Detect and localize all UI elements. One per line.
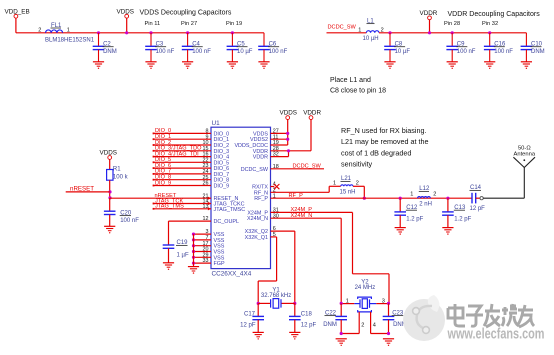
svg-text:www.elecfans.com: www.elecfans.com xyxy=(447,326,545,343)
wire net X32K_Q2 xyxy=(271,230,295,232)
svg-text:1: 1 xyxy=(410,191,413,197)
capacitor C2 xyxy=(93,31,117,62)
svg-text:DC_OUPL: DC_OUPL xyxy=(214,219,239,225)
ground xyxy=(336,338,347,340)
power terminal VDDR (chip) xyxy=(303,109,321,119)
U1 right pin names and numbers xyxy=(234,129,278,241)
svg-text:nRESET: nRESET xyxy=(70,186,94,193)
svg-text:FGP: FGP xyxy=(214,261,225,267)
watermark chinese text xyxy=(448,304,534,327)
svg-text:Pin 11: Pin 11 xyxy=(145,21,161,27)
svg-text:15 nH: 15 nH xyxy=(340,190,356,196)
ground xyxy=(163,262,174,264)
op-amp U1 chip body CC26XX_4X4 xyxy=(211,120,271,277)
wire net DIO_2 xyxy=(153,140,211,146)
net label nRESET (left) xyxy=(66,186,110,193)
svg-text:BLM18HE152SN1: BLM18HE152SN1 xyxy=(45,38,95,44)
capacitor C19 xyxy=(163,240,189,263)
wire RF_N xyxy=(271,191,330,193)
svg-text:R1: R1 xyxy=(113,166,121,172)
U1 left pin names and numbers xyxy=(203,129,246,268)
svg-text:4: 4 xyxy=(373,322,376,328)
wire net DCDC_SW (chip) xyxy=(271,164,325,170)
svg-text:JTAG_TMSC: JTAG_TMSC xyxy=(214,207,246,213)
svg-text:JTAG_TMS: JTAG_TMS xyxy=(155,204,184,210)
wire net DIO_1 xyxy=(153,134,211,140)
capacitor C12 xyxy=(394,197,423,228)
svg-text:100 nF: 100 nF xyxy=(494,49,513,55)
wire net DIO_3/JTAG_TDO xyxy=(153,146,211,152)
svg-text:100 nF: 100 nF xyxy=(120,218,139,224)
ground xyxy=(484,61,495,63)
svg-text:2: 2 xyxy=(361,322,364,328)
svg-text:DCDC_SW: DCDC_SW xyxy=(241,167,269,173)
ground xyxy=(521,61,532,63)
svg-text:2: 2 xyxy=(38,27,41,33)
wire net DIO_9 xyxy=(153,180,211,186)
svg-text:2: 2 xyxy=(433,191,436,197)
capacitor C18 xyxy=(289,303,316,332)
svg-text:C17: C17 xyxy=(244,311,256,317)
svg-text:12 pF: 12 pF xyxy=(240,322,256,328)
wire VDD_EB to rail xyxy=(15,18,17,33)
capacitor C10 xyxy=(521,33,545,62)
ground xyxy=(182,61,193,63)
svg-text:24 MHz: 24 MHz xyxy=(355,285,376,291)
svg-text:DCDC_SW: DCDC_SW xyxy=(293,164,322,170)
svg-text:1 µF: 1 µF xyxy=(177,252,189,258)
wire net DIO_7 xyxy=(153,169,211,175)
svg-text:L21 may be removed at the: L21 may be removed at the xyxy=(341,137,429,146)
ground xyxy=(227,61,238,63)
svg-text:DCDC_SW: DCDC_SW xyxy=(328,25,357,31)
svg-text:VDDS: VDDS xyxy=(100,150,118,157)
antenna 50 ohm xyxy=(483,145,536,198)
svg-text:DIO_9: DIO_9 xyxy=(155,180,171,186)
svg-text:X32K_Q1: X32K_Q1 xyxy=(245,235,268,241)
ground xyxy=(104,225,115,227)
capacitor C14 xyxy=(470,185,486,212)
svg-text:RF_P: RF_P xyxy=(254,196,268,202)
capacitor C6 xyxy=(258,33,287,62)
wire net DIO_6 xyxy=(153,163,211,169)
svg-text:100 nF: 100 nF xyxy=(269,49,288,55)
svg-text:U1: U1 xyxy=(212,120,221,127)
svg-text:100 k: 100 k xyxy=(113,175,129,181)
inductor L1 xyxy=(358,18,384,42)
wire Y2 pin4 to ground xyxy=(371,333,389,335)
capacitor C3 xyxy=(145,31,174,62)
capacitor C4 xyxy=(182,31,211,62)
ground xyxy=(258,61,269,63)
wire VDDR pins xyxy=(271,120,312,157)
svg-text:1.2 pF: 1.2 pF xyxy=(406,217,423,223)
ground xyxy=(289,331,300,333)
svg-text:1: 1 xyxy=(333,181,336,187)
svg-text:VDDR: VDDR xyxy=(253,155,268,161)
no-connect X on RX/TX xyxy=(271,184,280,189)
wire net JTAG_TMS xyxy=(153,204,211,211)
svg-text:3: 3 xyxy=(382,299,385,305)
wire DC_OUPL xyxy=(169,220,212,222)
power terminal VDDS (chip) xyxy=(280,109,298,119)
svg-text:DNM: DNM xyxy=(323,322,337,328)
ground xyxy=(395,227,406,229)
crystal Y1 32.768 kHz xyxy=(257,288,297,309)
ground xyxy=(93,61,104,63)
wire L21 to RF_P xyxy=(363,186,365,198)
wire net DIO_4/JTAG_TDI xyxy=(153,151,211,157)
svg-text:VDDR Decoupling Capacitors: VDDR Decoupling Capacitors xyxy=(448,11,541,18)
ground xyxy=(384,61,395,63)
wire VSS rail xyxy=(192,233,211,267)
wire VDDS rail xyxy=(16,32,264,34)
wire nRESET to chip pin 21 xyxy=(110,193,211,200)
svg-text:C18: C18 xyxy=(301,311,313,317)
svg-text:Pin 28: Pin 28 xyxy=(444,21,460,27)
svg-text:100 nF: 100 nF xyxy=(156,49,175,55)
svg-text:100 nF: 100 nF xyxy=(457,49,476,55)
svg-text:cost of 1 dB degraded: cost of 1 dB degraded xyxy=(341,148,411,157)
power terminal VDDR xyxy=(420,10,438,34)
svg-text:X24M_N: X24M_N xyxy=(291,213,313,219)
inductor L12 xyxy=(410,186,436,207)
svg-text:X24M_N: X24M_N xyxy=(247,216,268,222)
svg-text:10 µH: 10 µH xyxy=(363,36,379,42)
capacitor C9 xyxy=(446,31,475,62)
svg-text:C8 close to pin 18: C8 close to pin 18 xyxy=(330,88,386,95)
wire L1 to VDDR rail xyxy=(379,32,526,34)
svg-text:RF_P: RF_P xyxy=(289,193,304,199)
watermark logo xyxy=(403,295,445,341)
svg-text:Place L1 and: Place L1 and xyxy=(330,77,371,84)
wire DCDC_SW to L1 xyxy=(327,32,367,34)
svg-text:1.2 pF: 1.2 pF xyxy=(454,217,471,223)
wire Y2 pin2 to ground xyxy=(341,333,359,335)
svg-text:Antenna: Antenna xyxy=(513,151,535,157)
ground xyxy=(442,227,453,229)
ferrite bead FL1 xyxy=(38,23,94,44)
power terminal VDD_EB xyxy=(5,9,30,19)
svg-text:12 pF: 12 pF xyxy=(470,206,486,212)
capacitor C13 xyxy=(442,197,472,228)
wire net X24M_N xyxy=(271,213,342,303)
ground xyxy=(253,331,264,333)
wire net DIO_5 xyxy=(153,157,211,163)
ground xyxy=(188,266,199,268)
capacitor C8 xyxy=(384,31,410,62)
svg-text:RF_N used for RX biasing.: RF_N used for RX biasing. xyxy=(341,126,427,135)
svg-text:DIO_9: DIO_9 xyxy=(214,184,230,190)
svg-text:2 nH: 2 nH xyxy=(419,202,432,208)
capacitor C22 xyxy=(323,302,347,334)
svg-text:sensitivity: sensitivity xyxy=(341,160,373,169)
svg-text:VDDS Decoupling Capacitors: VDDS Decoupling Capacitors xyxy=(140,10,232,17)
ground xyxy=(447,61,458,63)
svg-text:DNM: DNM xyxy=(531,49,545,55)
svg-text:10 µF: 10 µF xyxy=(237,49,253,55)
ground xyxy=(145,61,156,63)
ground xyxy=(383,338,394,340)
wire R1 to nRESET node xyxy=(109,180,111,198)
wire net X32K_Q1 xyxy=(271,236,277,238)
power terminal VDDS (R1 pullup) xyxy=(100,150,118,170)
svg-text:Pin 32: Pin 32 xyxy=(482,21,498,27)
inductor L21 xyxy=(329,176,364,195)
svg-text:Pin 19: Pin 19 xyxy=(226,21,242,27)
svg-text:10 µF: 10 µF xyxy=(395,49,411,55)
svg-text:CC26XX_4X4: CC26XX_4X4 xyxy=(212,271,252,278)
svg-text:12 pF: 12 pF xyxy=(301,322,317,328)
wire net JTAG_TCK xyxy=(153,198,211,205)
svg-text:DNM: DNM xyxy=(103,49,117,55)
svg-text:1: 1 xyxy=(67,27,70,33)
capacitor C23 xyxy=(383,302,407,334)
power terminal VDDS xyxy=(117,9,135,35)
wire RF_P xyxy=(271,193,473,199)
crystal Y2 24 MHz xyxy=(341,279,388,333)
svg-text:1: 1 xyxy=(346,299,349,305)
note Place L1 xyxy=(330,77,386,95)
svg-text:100 nF: 100 nF xyxy=(192,49,211,55)
svg-text:1: 1 xyxy=(358,27,361,33)
note RF_N biasing xyxy=(341,126,429,169)
wire VDDS pins xyxy=(271,120,290,146)
capacitor C16 xyxy=(484,31,513,62)
wire net DIO_0 xyxy=(153,128,211,134)
resistor R1 xyxy=(107,166,129,180)
wire net X24M_P xyxy=(271,207,390,303)
wire net DIO_8 xyxy=(153,175,211,181)
capacitor C5 xyxy=(227,31,253,62)
svg-text:VDDR: VDDR xyxy=(303,109,321,116)
capacitor C20 xyxy=(104,198,139,226)
capacitor C17 xyxy=(240,303,264,332)
svg-text:Pin 27: Pin 27 xyxy=(181,21,197,27)
